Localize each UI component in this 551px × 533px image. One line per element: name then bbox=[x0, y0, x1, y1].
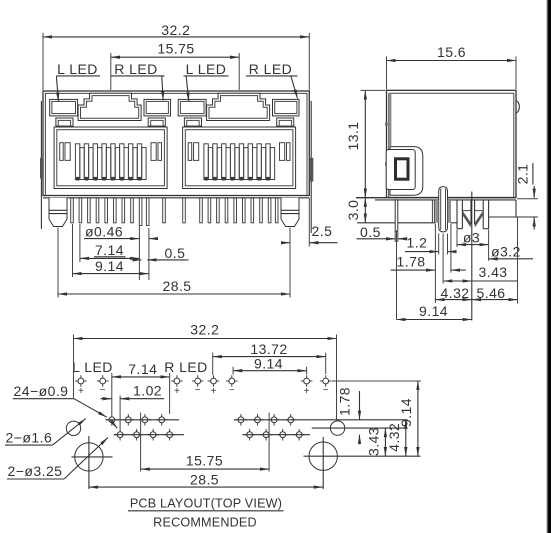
right edge dimple bump bbox=[516, 101, 519, 114]
side LED housing front plate bbox=[386, 150, 415, 190]
row2 centerline port2 bbox=[243, 434, 311, 436]
dim 15.6 line bbox=[387, 60, 517, 62]
shield hole 1.6 right bbox=[330, 421, 344, 435]
svg-text:ø3.2: ø3.2 bbox=[491, 244, 521, 260]
svg-text:15.75: 15.75 bbox=[186, 452, 223, 468]
dim 3.0 line bbox=[364, 198, 366, 223]
svg-text:28.5: 28.5 bbox=[162, 278, 191, 294]
side body bbox=[387, 90, 517, 197]
svg-text:0.5: 0.5 bbox=[360, 224, 381, 240]
dim 9.14v pcb line bbox=[417, 381, 419, 456]
contact fingers p2 bbox=[204, 144, 275, 181]
svg-text:4.32: 4.32 bbox=[441, 285, 470, 301]
svg-text:5.46: 5.46 bbox=[477, 285, 506, 301]
svg-text:9.14: 9.14 bbox=[398, 398, 414, 427]
dim 1.78 line bbox=[391, 269, 436, 271]
housing outer shell bbox=[43, 91, 309, 196]
contact fingers bbox=[75, 144, 146, 181]
fork wedge top notches bbox=[462, 210, 483, 212]
svg-text:1.2: 1.2 bbox=[407, 234, 428, 250]
pin center ext bbox=[396, 232, 398, 320]
page edge black band right bbox=[547, 0, 548, 533]
svg-text:7.14: 7.14 bbox=[128, 361, 157, 377]
port 2 jack front bbox=[178, 93, 299, 188]
dim 13.72 line bbox=[213, 356, 326, 358]
PCB VIEW bbox=[5, 322, 421, 530]
fork right wedge bbox=[475, 211, 483, 227]
svg-text:L LED: L LED bbox=[57, 61, 98, 77]
housing inner top line bbox=[45, 92, 307, 94]
dim 2.5 line bbox=[283, 242, 290, 244]
svg-text:2.1: 2.1 bbox=[515, 164, 531, 185]
L LED window bbox=[50, 99, 78, 116]
latch recess stepped contour bbox=[78, 93, 141, 120]
right mounting peg bbox=[281, 198, 299, 227]
dim 7.14 line bbox=[80, 257, 139, 259]
svg-text:+: + bbox=[211, 386, 217, 397]
right side slot p2 bbox=[280, 143, 285, 161]
svg-text:9.14: 9.14 bbox=[254, 355, 283, 371]
dim 2.1 line bbox=[533, 186, 535, 198]
right step under LED bbox=[148, 118, 165, 126]
svg-text:ø3: ø3 bbox=[463, 230, 480, 246]
housing inner right line bbox=[306, 93, 308, 195]
FRONT VIEW bbox=[40, 91, 313, 233]
peg hole 3.25 left bbox=[75, 443, 103, 471]
led row right ext bbox=[332, 380, 421, 382]
peg hole 3.25 right bbox=[309, 442, 337, 470]
fork center line bbox=[471, 192, 473, 321]
svg-text:2−ø1.6: 2−ø1.6 bbox=[6, 429, 53, 445]
dim 1.78 pcb line bbox=[359, 391, 361, 420]
svg-text:PCB LAYOUT(TOP VIEW): PCB LAYOUT(TOP VIEW) bbox=[130, 497, 282, 511]
dim 28.5 fv line bbox=[58, 293, 290, 295]
svg-text:15.75: 15.75 bbox=[157, 41, 194, 57]
svg-text:13.1: 13.1 bbox=[345, 121, 361, 150]
svg-text:R LED: R LED bbox=[114, 61, 157, 77]
svg-text:−: − bbox=[323, 385, 329, 396]
dim 0.46 ext lines bbox=[138, 226, 140, 280]
dim 4.32 pcb line bbox=[405, 420, 407, 456]
band section edge lines bbox=[431, 200, 433, 223]
port 1 jack front bbox=[50, 93, 171, 188]
left shield tab bbox=[40, 158, 44, 179]
dim 7.14 pcb line bbox=[112, 376, 170, 378]
row1 centerline port2 bbox=[234, 419, 408, 421]
dim 32.2 ext left bbox=[42, 33, 44, 90]
dim 15.75 ext right bbox=[238, 53, 240, 90]
post section walls bbox=[435, 200, 438, 223]
fork left wedge bbox=[463, 211, 471, 227]
right shield flange line bbox=[310, 101, 312, 233]
latch recess stepped contour p2 bbox=[207, 93, 270, 120]
dim 5.46 line bbox=[472, 299, 518, 301]
dim 15.75 ext left bbox=[110, 53, 112, 90]
SIDE VIEW bbox=[356, 90, 538, 320]
R LED window p2 bbox=[273, 99, 300, 116]
dim 9.14 fv line bbox=[73, 273, 149, 275]
svg-text:1.78: 1.78 bbox=[397, 253, 426, 269]
dim 3.43 sv line bbox=[443, 280, 472, 282]
side front pin bbox=[395, 200, 398, 231]
contact holes row2 bbox=[114, 429, 305, 441]
polarity signs bbox=[78, 385, 329, 397]
svg-text:R LED: R LED bbox=[164, 359, 207, 375]
svg-text:L LED: L LED bbox=[186, 61, 227, 77]
dim 2.1 text underline bbox=[532, 163, 534, 185]
side body inner right bbox=[513, 93, 515, 197]
left side slot bbox=[60, 143, 64, 161]
svg-text:3.0: 3.0 bbox=[345, 200, 361, 221]
port cavity bbox=[54, 127, 167, 189]
row1 centerline port1 bbox=[106, 419, 180, 421]
svg-text:R LED: R LED bbox=[249, 61, 292, 77]
standoff band bottom left bbox=[357, 222, 435, 224]
svg-text:RECOMMENDED: RECOMMENDED bbox=[153, 515, 257, 529]
dim 15.75 pcb line bbox=[141, 468, 270, 470]
svg-text:15.6: 15.6 bbox=[437, 44, 466, 60]
right shield tab bbox=[310, 158, 314, 182]
svg-text:+: + bbox=[304, 386, 310, 397]
dim 13.1 line bbox=[364, 90, 366, 197]
svg-text:3.43: 3.43 bbox=[365, 427, 381, 456]
svg-text:7.14: 7.14 bbox=[95, 242, 124, 258]
right step under LED p2 bbox=[277, 118, 294, 126]
body bottom double line bbox=[356, 197, 516, 199]
dim 1.2 line bbox=[405, 251, 439, 253]
svg-text:2−ø3.25: 2−ø3.25 bbox=[8, 463, 63, 479]
leader 2-o3.25 bbox=[64, 438, 108, 480]
svg-text:1.02: 1.02 bbox=[133, 383, 162, 399]
left step under LED bbox=[56, 118, 73, 126]
svg-text:0.5: 0.5 bbox=[165, 245, 186, 261]
dim 0.5 sv exts bbox=[394, 232, 396, 243]
row2 centerline port1 bbox=[114, 434, 184, 436]
dim o3.2 line bbox=[489, 258, 533, 260]
svg-text:9.14: 9.14 bbox=[419, 303, 448, 319]
FRONT VIEW DIMENSIONS bbox=[43, 22, 338, 298]
side LED housing back plate bbox=[390, 147, 423, 196]
body edge shade above LED housing bbox=[389, 93, 392, 146]
leader 2-o1.6 bbox=[53, 419, 86, 446]
svg-text:28.5: 28.5 bbox=[190, 471, 219, 487]
left mounting peg bbox=[49, 198, 67, 227]
svg-text:24−ø0.9: 24−ø0.9 bbox=[14, 383, 69, 399]
dim 32.2 ext right bbox=[308, 33, 310, 90]
side body inner left bbox=[388, 93, 390, 197]
svg-text:+: + bbox=[78, 386, 84, 397]
R LED window bbox=[144, 99, 171, 116]
L LED window p2 bbox=[178, 99, 206, 116]
svg-text:32.2: 32.2 bbox=[161, 22, 190, 38]
housing inner left line bbox=[44, 93, 46, 195]
round locating post bbox=[439, 187, 448, 232]
dim 32.2 line bbox=[43, 36, 309, 38]
hole 1.6 right centerline bbox=[312, 427, 408, 429]
svg-text:32.2: 32.2 bbox=[190, 322, 219, 338]
right band edge bbox=[515, 200, 517, 217]
contact holes row1 bbox=[106, 414, 297, 426]
housing bottom second line bbox=[43, 197, 309, 199]
port cavity p2 bbox=[183, 127, 296, 189]
dim o3 line bbox=[457, 244, 489, 246]
svg-text:−: − bbox=[100, 385, 106, 396]
left edge dimple marks bbox=[385, 123, 388, 126]
side LED slot bbox=[396, 159, 409, 179]
dim 9.14 sv line bbox=[397, 319, 472, 321]
left side slot p2 bbox=[188, 143, 192, 161]
svg-text:2.5: 2.5 bbox=[312, 223, 333, 239]
dim 28.5 pcb line bbox=[89, 486, 323, 488]
LED holes row bbox=[75, 375, 331, 387]
dim 9.14 pcb line bbox=[233, 370, 307, 372]
right side slot bbox=[151, 143, 156, 161]
left shield flange line bbox=[40, 101, 42, 229]
dim 4.32 sv line bbox=[435, 299, 471, 301]
svg-text:1.78: 1.78 bbox=[337, 387, 353, 416]
fork post prong walls bbox=[456, 200, 458, 229]
standoff band bottom right / 2.1 ext bbox=[489, 216, 538, 218]
front pins row bbox=[71, 198, 278, 226]
shield hole 1.6 left bbox=[66, 421, 80, 435]
2.1 top ext bbox=[517, 198, 538, 200]
svg-text:9.14: 9.14 bbox=[95, 258, 124, 274]
svg-text:ø0.46: ø0.46 bbox=[85, 224, 123, 240]
dim 1.02 line bbox=[101, 398, 112, 400]
svg-text:−: − bbox=[229, 385, 235, 396]
left step under LED p2 bbox=[184, 118, 201, 126]
SIDE VIEW DIMENSIONS bbox=[345, 44, 534, 320]
dim 15.75 line bbox=[111, 56, 239, 58]
leader 24-o0.9 bbox=[74, 399, 107, 418]
svg-text:3.43: 3.43 bbox=[479, 264, 508, 280]
side body inner top bbox=[389, 92, 514, 94]
svg-text:L LED: L LED bbox=[72, 359, 113, 375]
dim 32.2 pcb line bbox=[74, 338, 337, 340]
dim 3.43 pcb line bbox=[384, 428, 386, 456]
svg-text:+: + bbox=[174, 386, 180, 397]
svg-text:−: − bbox=[195, 385, 201, 396]
fork prong bottoms bbox=[457, 228, 462, 230]
